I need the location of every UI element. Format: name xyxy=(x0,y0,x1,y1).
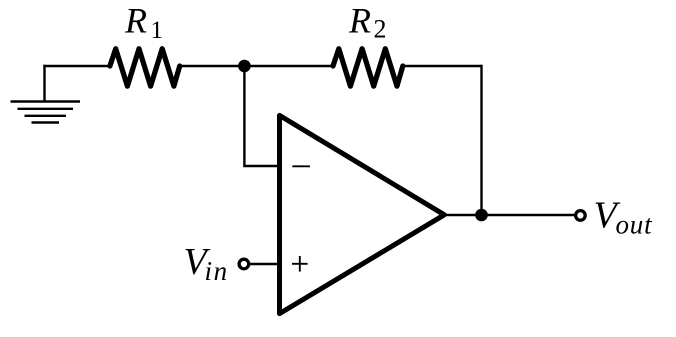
svg-text:1: 1 xyxy=(151,17,164,44)
resistor R1 xyxy=(110,49,180,86)
wire R2 to top-right corner xyxy=(402,65,482,67)
node A junction dot xyxy=(238,60,251,73)
svg-text:R: R xyxy=(348,1,371,41)
wire node A to R2 xyxy=(244,65,333,67)
terminal Vin (open circle) xyxy=(239,259,249,269)
svg-text:2: 2 xyxy=(374,15,387,44)
ground xyxy=(11,65,81,123)
op-amp U1 xyxy=(280,115,445,313)
svg-text:in: in xyxy=(205,256,229,286)
wire ground to R1 xyxy=(43,65,110,67)
svg-text:out: out xyxy=(616,209,654,239)
terminal Vout (open circle) xyxy=(576,211,586,221)
wire node A down to inverting input xyxy=(244,66,282,166)
plus sign (non-inverting input) xyxy=(292,256,308,272)
node B junction dot (output) xyxy=(475,209,488,222)
wire feedback vertical (corner down to output node) xyxy=(480,65,482,215)
minus sign (inverting input) xyxy=(292,165,310,167)
wire Vin to op-amp plus input xyxy=(249,263,282,265)
wire op-amp output xyxy=(444,214,576,216)
wire R1 to node A xyxy=(179,65,245,67)
resistor R2 xyxy=(333,49,403,86)
svg-text:R: R xyxy=(124,1,147,41)
